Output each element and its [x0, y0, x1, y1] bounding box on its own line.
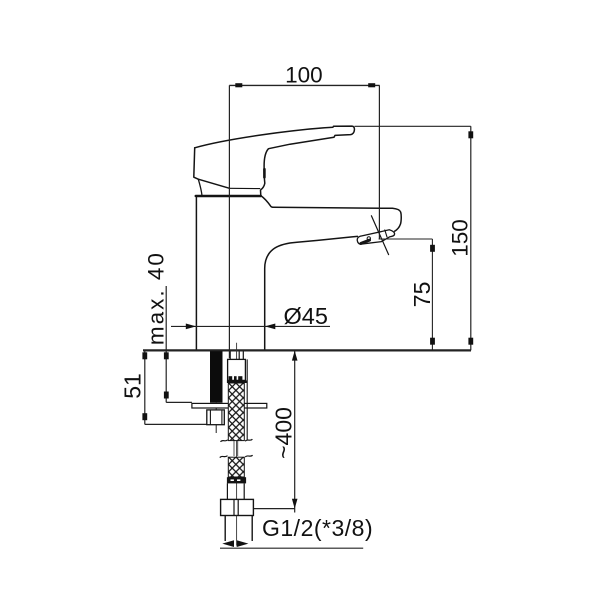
lever left tail [194, 148, 230, 189]
dim 400 line [294, 351, 296, 513]
aerator ring [367, 237, 370, 240]
dim 400 bottom connector [253, 508, 295, 510]
hose centre line [236, 343, 238, 499]
dim 150 line [470, 126, 472, 350]
lever handle outline [195, 126, 402, 231]
break squiggle lower-right [245, 455, 252, 457]
mounting nut [207, 410, 225, 425]
svg-text:~400: ~400 [270, 407, 296, 459]
aerator slot [361, 240, 370, 243]
dim dia45 line [171, 325, 330, 327]
threaded shank (solid) [210, 351, 223, 402]
thread arrow left [222, 540, 234, 547]
upper ferrule [227, 380, 247, 383]
tick dim100 right [368, 83, 375, 87]
under-counter hardware [192, 343, 267, 546]
nut facet lines [210, 410, 222, 425]
arrow dia45 left [186, 324, 196, 330]
svg-text:Ø45: Ø45 [284, 303, 328, 329]
dim max40 bottom connector [166, 401, 192, 403]
dim max40 line [165, 286, 167, 402]
back hose edge [246, 359, 248, 440]
ferrule dashes [231, 479, 234, 481]
shank centre line [215, 403, 217, 433]
tick dim51 top [142, 352, 147, 359]
arrow dia45 right [265, 324, 275, 330]
dim 51 line [144, 350, 146, 424]
body right edge and spout underside [265, 236, 358, 350]
cartridge dome top seam [230, 187, 260, 189]
svg-text:G1/2(*3/8): G1/2(*3/8) [262, 515, 373, 541]
flow cross diagonal [371, 216, 388, 255]
hose end nut [221, 499, 254, 515]
handle seam tick [263, 169, 266, 177]
break squiggle upper-left [221, 440, 228, 442]
svg-text:max. 40: max. 40 [144, 251, 169, 345]
svg-text:51: 51 [120, 373, 146, 399]
dim 100 line [229, 84, 379, 86]
thread centre line [236, 516, 238, 546]
hose tube stubs [230, 352, 243, 360]
break squiggle upper-right [245, 439, 252, 441]
upper braid segment [228, 383, 244, 441]
dim 51 bottom connector [145, 423, 208, 425]
body top line [196, 195, 261, 197]
tick dim150 top [468, 131, 473, 138]
break gap lines [234, 441, 238, 456]
body left edge [195, 196, 197, 350]
tick max40 top [164, 352, 169, 359]
svg-text:75: 75 [409, 282, 435, 308]
aerator (tilted) [357, 230, 394, 244]
hose fitting [228, 359, 246, 380]
thread arrow right [237, 540, 249, 547]
counter line [143, 349, 471, 351]
ref line top right [355, 125, 471, 127]
fitting knurl marks [229, 376, 233, 380]
tick dim150 bottom [468, 338, 473, 345]
arrow 400 down [292, 499, 298, 509]
aerator nose seam [385, 230, 387, 237]
arrow 400 up [292, 351, 298, 361]
tick dim100 left [235, 83, 242, 87]
G thread leader line [220, 547, 363, 549]
dimension texts [120, 62, 473, 541]
lower ferrule [227, 477, 246, 483]
dim 100 left extension [228, 85, 230, 358]
lower braid segment [228, 457, 244, 477]
tube below ferrule [227, 483, 244, 499]
break squiggle lower-left [220, 456, 228, 458]
svg-text:150: 150 [448, 219, 473, 257]
dim 75 line [431, 239, 433, 350]
tick dim51 bottom [142, 413, 147, 420]
tick dim75 top [430, 245, 435, 252]
thread tail [225, 516, 252, 542]
tick max40 bottom [164, 392, 169, 399]
dim 100 right extension [378, 85, 380, 239]
ref line aerator right [379, 238, 433, 240]
mounting washer [192, 403, 267, 408]
svg-text:100: 100 [285, 62, 323, 87]
tick dim75 bottom [430, 338, 435, 345]
end nut facets [234, 499, 238, 515]
dome left edge [198, 179, 202, 195]
